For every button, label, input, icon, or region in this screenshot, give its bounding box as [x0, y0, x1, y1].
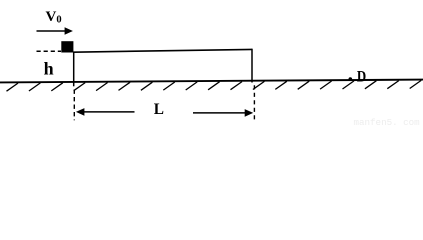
- svg-text:L: L: [154, 101, 164, 118]
- ground hatching: [7, 80, 422, 91]
- svg-text:V0: V0: [46, 9, 62, 26]
- block (sliding mass): [61, 41, 73, 52]
- dimension arrow right (points right to right drop line): [193, 109, 253, 117]
- dashed lead-in line at block level: [37, 50, 62, 52]
- ground line: [0, 80, 423, 83]
- dashed drop line below platform left edge: [73, 90, 75, 121]
- velocity arrow V0: [37, 27, 73, 34]
- svg-text:manfen5. com: manfen5. com: [354, 117, 421, 127]
- svg-text:D: D: [357, 68, 366, 85]
- dimension arrow left (points left to left drop line): [76, 108, 135, 116]
- platform top edge: [73, 49, 252, 52]
- landing point dot: [349, 77, 353, 81]
- svg-text:h: h: [44, 58, 54, 78]
- platform right edge: [251, 49, 253, 83]
- dashed drop line below platform right edge: [253, 85, 255, 121]
- platform left edge: [73, 52, 75, 87]
